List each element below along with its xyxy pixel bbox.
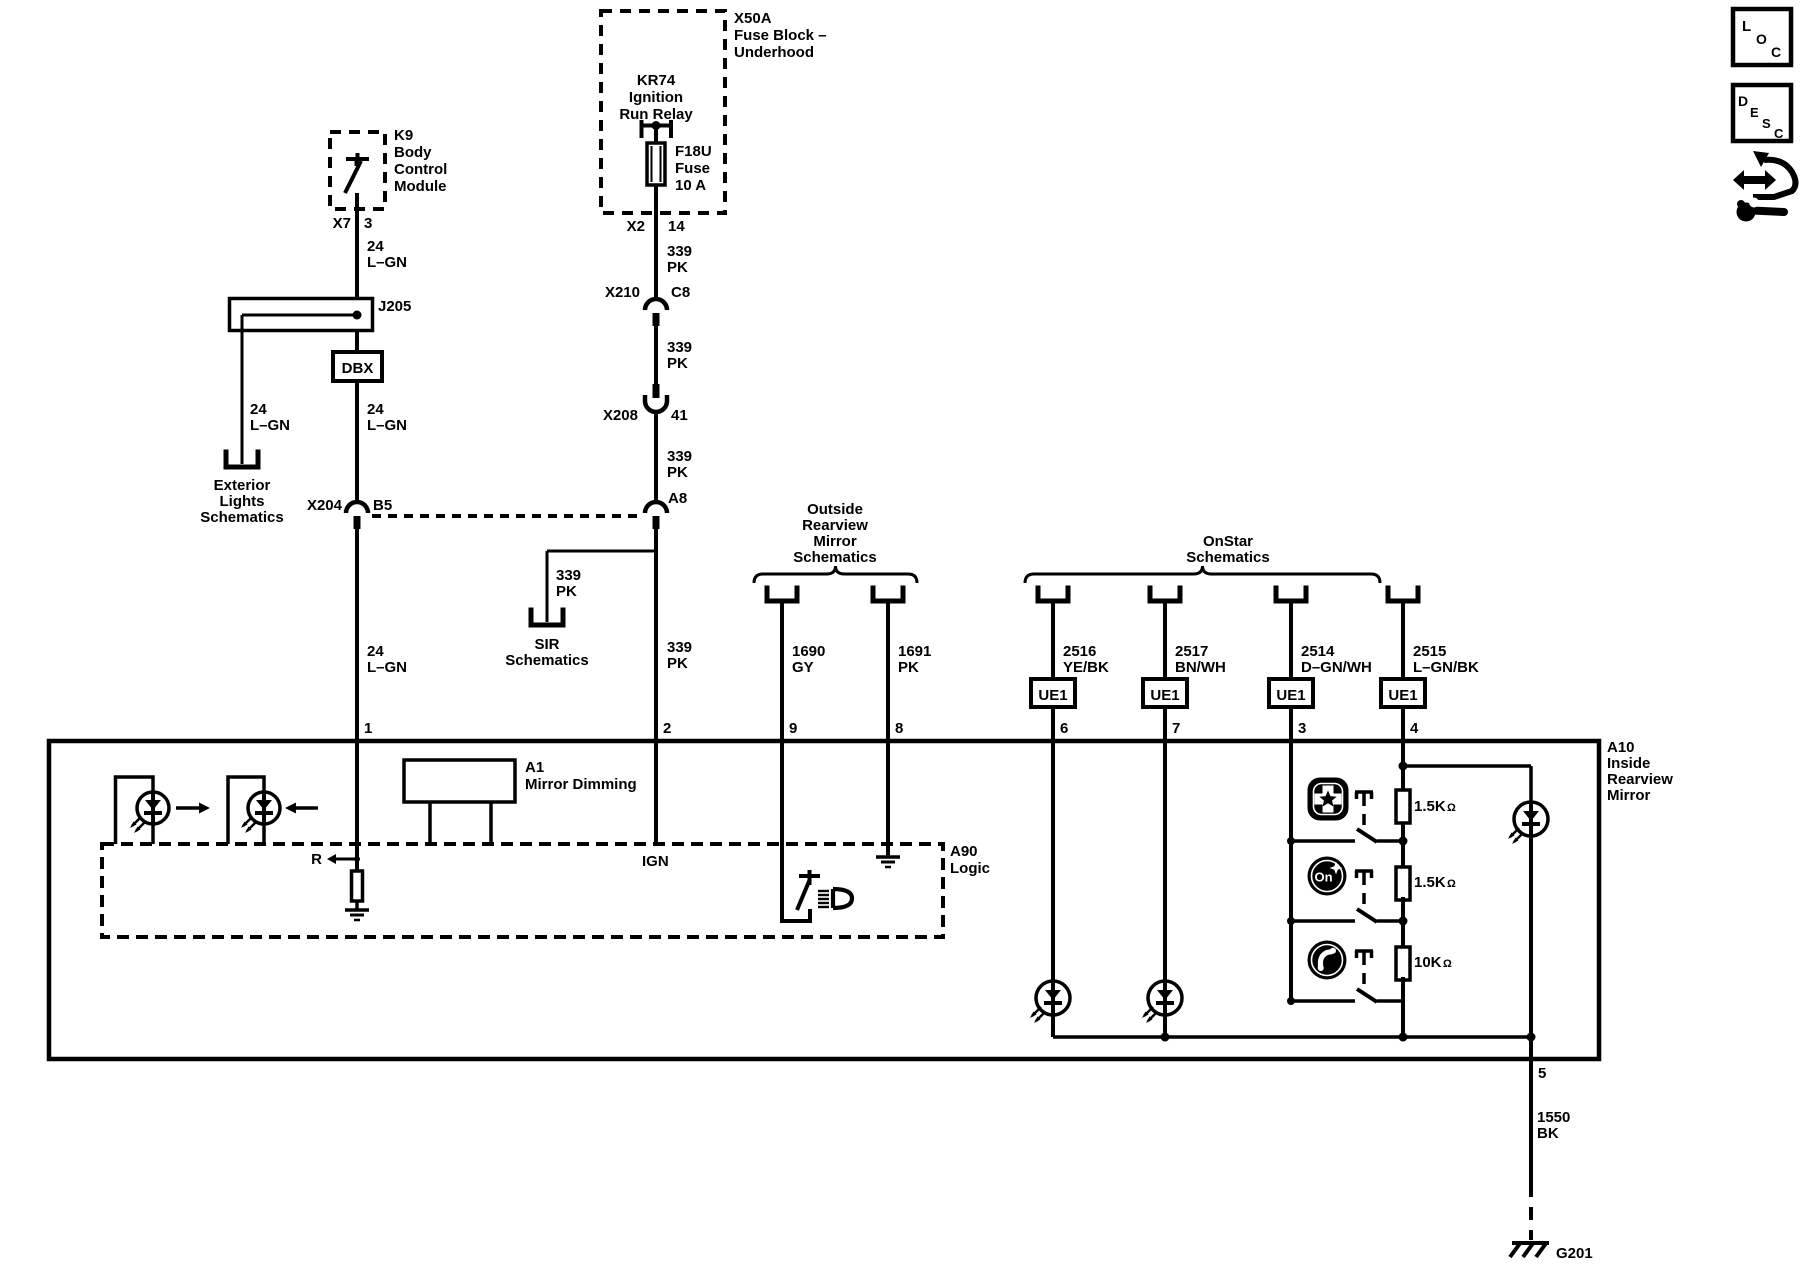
button icon phone [1308,941,1347,980]
resistor in A90 [352,871,363,901]
button icon crossroads (star) [1309,779,1347,819]
svg-text:Ω: Ω [1443,958,1452,970]
icon box LOC [1733,9,1791,65]
svg-text:Rearview: Rearview [802,517,868,534]
switch row 3 [1287,989,1403,1005]
svg-text:UE1: UE1 [1388,687,1417,704]
brace OnStar [1025,566,1380,583]
svg-text:Rearview: Rearview [1607,771,1673,788]
splice UE1 on wire 2516 [1031,679,1075,707]
connector label X7 pin 3 [333,215,373,232]
pin 7 of A10 [1172,720,1180,737]
wire X210 to X208 (339 PK) [654,320,658,384]
terminal OnStar wire 2516 [1038,588,1068,601]
label SIR Schematics [505,636,588,669]
pin 5 of A10 [1538,1065,1546,1082]
wire J205 left branch to Exterior Lights [241,315,244,464]
wire DBX to X204 (24 L-GN) [355,381,359,504]
wire label 339 PK [667,448,692,481]
icon navigation arrows [1733,151,1796,222]
svg-text:PK: PK [898,659,919,676]
svg-text:9: 9 [789,720,797,737]
wire label 2515 L–GN/BK [1413,643,1479,676]
svg-text:3: 3 [1298,720,1306,737]
resistor 1.5K upper [1396,790,1410,823]
svg-text:10 A: 10 A [675,177,706,194]
svg-text:Mirror: Mirror [1607,787,1651,804]
svg-text:24: 24 [250,401,267,418]
svg-text:A90: A90 [950,843,978,860]
svg-text:L–GN: L–GN [250,417,290,434]
svg-text:Logic: Logic [950,860,990,877]
terminal to Exterior Lights Schematics [226,452,258,467]
value label 10K ohm row3 [1414,954,1452,971]
svg-text:1550: 1550 [1537,1109,1570,1126]
svg-text:A8: A8 [668,490,687,507]
node label IGN [642,853,669,870]
svg-text:KR74: KR74 [637,72,676,89]
pin 6 of A10 [1060,720,1068,737]
switch inside K9 [345,153,369,193]
bus wire bottom [1053,1035,1531,1039]
svg-text:Ω: Ω [1447,878,1456,890]
fuse F18U 10 A [647,143,712,194]
svg-text:J205: J205 [378,298,411,315]
svg-text:5: 5 [1538,1065,1546,1082]
dashed wire to G201 [1529,1184,1533,1240]
icon box DESC [1733,85,1791,141]
wire label 2517 BN/WH [1175,643,1226,676]
wire 2516 YE/BK to pin 6 [1051,601,1055,741]
wire 1691 PK to pin 8 [886,601,890,741]
svg-text:C8: C8 [671,284,690,301]
svg-text:OnStar: OnStar [1203,533,1253,550]
pin 1 of A10 [364,720,372,737]
wire K9 to J205 (24 L-GN) [355,193,359,298]
relay KR74 contact [642,120,672,138]
wire to right LED [1403,766,1531,803]
terminal outside mirror left [767,588,797,601]
LED indicator right [1508,802,1548,844]
wire 2514 D–GN/WH to pin 3 [1289,601,1293,741]
terminal OnStar wire 2514 [1276,588,1306,601]
pin 9 of A10 [789,720,797,737]
svg-text:UE1: UE1 [1038,687,1067,704]
icon headlamp lens [833,889,852,908]
brace Outside Rearview Mirror [754,566,917,583]
svg-text:Mirror: Mirror [813,533,857,550]
wire label 24 L-GN [367,401,407,434]
logic block A90 dashed box [102,843,990,937]
wire pin 1 into mirror dimming [355,741,359,872]
label Exterior Lights Schematics [200,477,283,526]
splice UE1 on wire 2514 [1269,679,1313,707]
pin 4 of A10 [1410,720,1419,737]
svg-text:8: 8 [895,720,903,737]
svg-text:Mirror Dimming: Mirror Dimming [525,776,637,793]
svg-text:10K: 10K [1414,954,1442,971]
svg-text:On: On [1314,870,1332,885]
wire relay to fuse [654,126,658,145]
module K9 Body Control Module dashed box [330,127,447,209]
svg-text:24: 24 [367,401,384,418]
svg-text:2517: 2517 [1175,643,1208,660]
svg-text:E: E [1750,105,1759,120]
svg-text:Schematics: Schematics [505,652,588,669]
terminal OnStar wire 2515 [1388,588,1418,601]
svg-text:6: 6 [1060,720,1068,737]
wire label 1691 PK [898,643,931,676]
pin 2 of A10 [663,720,671,737]
junction dot bus/pin5 [1527,1033,1536,1042]
button icon OnStar [1308,857,1347,896]
svg-text:2515: 2515 [1413,643,1446,660]
switch row 1 [1287,829,1403,845]
svg-text:L–GN: L–GN [367,659,407,676]
link button 3 [1355,951,1373,984]
svg-text:A1: A1 [525,759,544,776]
connector X204 pin B5 [307,497,392,529]
label KR74 Ignition Run Relay [619,72,693,123]
splice DBX [333,352,382,381]
svg-text:14: 14 [668,218,685,235]
junction dot on J205 bus [353,311,362,320]
wire label 339 PK [667,243,692,276]
svg-text:D: D [1738,93,1748,109]
svg-text:X50A: X50A [734,10,772,27]
wire pin 4 into chain [1401,741,1405,790]
svg-text:A10: A10 [1607,739,1635,756]
LED indicator pin7 [1142,981,1182,1023]
node R with arrow [311,851,360,868]
link button 2 [1355,871,1373,904]
wire right LED to bus [1529,835,1533,1037]
svg-text:PK: PK [556,583,577,600]
svg-text:4: 4 [1410,720,1419,737]
svg-text:UE1: UE1 [1150,687,1179,704]
svg-text:Outside: Outside [807,501,863,518]
svg-text:Ignition: Ignition [629,89,683,106]
svg-text:GY: GY [792,659,814,676]
svg-text:Inside: Inside [1607,755,1650,772]
value label 1.5K ohm row1 [1414,798,1456,815]
junction dot bus/LED7 [1161,1033,1170,1042]
arrow right from left sensor [176,803,210,814]
svg-text:339: 339 [667,448,692,465]
svg-text:1.5K: 1.5K [1414,874,1446,891]
wire pin 8 to ground [886,741,890,857]
svg-text:Lights: Lights [220,493,265,510]
svg-text:C: C [1771,44,1781,60]
wire J205 to DBX [355,330,359,352]
svg-text:DBX: DBX [342,360,374,377]
wire label 339 PK (SIR branch) [556,567,581,600]
wire pin 7 into LED [1163,741,1167,982]
svg-text:B5: B5 [373,497,392,514]
svg-text:Underhood: Underhood [734,44,814,61]
svg-text:Ω: Ω [1447,802,1456,814]
svg-text:BN/WH: BN/WH [1175,659,1226,676]
resistor 10K lower [1396,947,1410,980]
wire resistor to ground [355,901,359,910]
fuse block X50A dashed box [601,10,827,213]
wire pin 6 into LED [1051,741,1055,982]
svg-text:Fuse: Fuse [675,160,710,177]
wire fuse to X210 (339 PK) [654,185,658,301]
connector label X2 pin 14 [627,218,686,235]
ground in A90 (left) [345,910,369,920]
svg-text:F18U: F18U [675,143,712,160]
splice UE1 on wire 2517 [1143,679,1187,707]
svg-text:O: O [1756,31,1767,47]
wire label 1550 BK [1537,1109,1570,1142]
arrow left from right sensor [285,803,318,814]
svg-text:339: 339 [556,567,581,584]
wire branch to SIR [547,551,656,622]
junction dot pin4/LED feed [1399,762,1408,771]
svg-text:X2: X2 [627,218,645,235]
junction dot row1 [1399,837,1408,846]
connector A8 [645,490,687,529]
connector X210 pin C8 [605,284,690,326]
svg-text:YE/BK: YE/BK [1063,659,1109,676]
link button 1 [1355,792,1373,825]
svg-text:X204: X204 [307,497,343,514]
svg-text:Module: Module [394,178,447,195]
svg-text:L–GN/BK: L–GN/BK [1413,659,1479,676]
svg-text:1690: 1690 [792,643,825,660]
icon headlamp beams [818,891,829,907]
wire chain segments [1401,823,1405,1037]
ground in A90 (right) [876,857,900,867]
dashed net B5 to A8 [372,514,642,518]
junction dot row2 [1399,917,1408,926]
svg-text:Exterior: Exterior [214,477,271,494]
label OnStar Schematics [1186,533,1269,566]
photodiode sensor left [116,777,170,844]
svg-text:7: 7 [1172,720,1180,737]
wire label 339 PK [667,639,692,672]
svg-text:D–GN/WH: D–GN/WH [1301,659,1372,676]
wire pin 9 into logic [780,741,784,923]
wire label 2514 D–GN/WH [1301,643,1372,676]
wire X204 to pin 1 (24 L-GN) [355,523,359,741]
resistor 1.5K middle [1396,867,1410,900]
svg-text:Fuse Block –: Fuse Block – [734,27,827,44]
svg-text:Body: Body [394,144,432,161]
value label 1.5K ohm row2 [1414,874,1456,891]
wire label 339 PK [667,339,692,372]
svg-text:K9: K9 [394,127,413,144]
label Outside Rearview Mirror Schematics [793,501,876,566]
wire LED6 to bus [1051,1014,1055,1037]
switch headlamp in A90 [782,870,820,923]
wire pin 3 bus [1289,741,1293,1001]
svg-text:24: 24 [367,643,384,660]
module A10 Inside Rearview Mirror box [49,739,1673,1059]
splice UE1 on wire 2515 [1381,679,1425,707]
svg-text:PK: PK [667,259,688,276]
LED indicator pin6 [1030,981,1070,1023]
wire label 24 L-GN [367,643,407,676]
svg-text:Run Relay: Run Relay [619,106,693,123]
svg-text:X208: X208 [603,407,638,424]
svg-text:G201: G201 [1556,1245,1593,1262]
svg-text:PK: PK [667,464,688,481]
svg-text:Control: Control [394,161,447,178]
svg-text:L–GN: L–GN [367,254,407,271]
block A1 Mirror Dimming [404,759,637,844]
wire label 1690 GY [792,643,825,676]
svg-text:X7: X7 [333,215,351,232]
switch row 2 [1287,909,1403,925]
svg-text:2: 2 [663,720,671,737]
wire 2515 L–GN/BK to pin 4 [1401,601,1405,741]
wire label 24 L-GN [367,238,407,271]
svg-text:Schematics: Schematics [793,549,876,566]
svg-text:Schematics: Schematics [1186,549,1269,566]
svg-text:1691: 1691 [898,643,931,660]
svg-text:L–GN: L–GN [367,417,407,434]
terminal to SIR Schematics [531,610,563,625]
svg-text:S: S [1762,116,1771,131]
ground G201 [1510,1242,1593,1262]
pin 8 of A10 [895,720,903,737]
svg-text:SIR: SIR [534,636,559,653]
svg-text:1.5K: 1.5K [1414,798,1446,815]
svg-text:X210: X210 [605,284,640,301]
svg-text:BK: BK [1537,1125,1559,1142]
wire 2517 BN/WH to pin 7 [1163,601,1167,741]
terminal outside mirror right [873,588,903,601]
svg-text:PK: PK [667,355,688,372]
svg-text:24: 24 [367,238,384,255]
svg-text:339: 339 [667,639,692,656]
svg-text:339: 339 [667,339,692,356]
svg-text:R: R [311,851,322,868]
wire label 2516 YE/BK [1063,643,1109,676]
terminal OnStar wire 2517 [1150,588,1180,601]
svg-text:PK: PK [667,655,688,672]
connector X208 pin 41 [603,384,688,424]
pin 3 of A10 [1298,720,1306,737]
svg-text:2514: 2514 [1301,643,1335,660]
wire pin 2 to IGN [654,741,658,846]
svg-text:C: C [1774,126,1784,141]
wire pin 5 exit [1529,1037,1533,1184]
svg-text:IGN: IGN [642,853,669,870]
svg-text:L: L [1742,18,1751,35]
svg-text:339: 339 [667,243,692,260]
svg-text:Schematics: Schematics [200,509,283,526]
svg-text:41: 41 [671,407,688,424]
wire label 24 L-GN (left branch) [250,401,290,434]
wire 1690 GY to pin 9 [780,601,784,741]
wire A8 to pin 2 (339 PK) [654,523,658,741]
photodiode sensor right [228,777,280,844]
svg-text:1: 1 [364,720,372,737]
wire LED7 to bus [1163,1014,1167,1037]
junction dot bus/chain [1399,1033,1408,1042]
svg-text:UE1: UE1 [1276,687,1305,704]
svg-text:2516: 2516 [1063,643,1096,660]
splice pack J205 [230,298,412,331]
wire X208 to A8 (339 PK) [654,412,658,504]
svg-text:3: 3 [364,215,372,232]
